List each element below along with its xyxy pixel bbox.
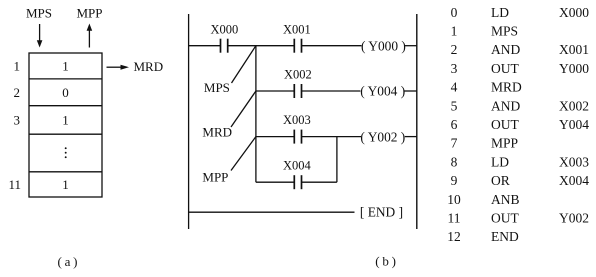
rung 3 wire: branch rail to contact X003 [256,136,294,138]
rung 3 wire: X003 past parallel join to coil [302,136,362,138]
svg-text:Y004: Y004 [559,117,589,132]
svg-text:X001: X001 [283,22,311,36]
svg-text:11: 11 [8,177,21,192]
contact X004 [293,175,295,189]
svg-text:ANB: ANB [491,192,520,207]
svg-text:1: 1 [14,59,21,74]
svg-text:2: 2 [14,85,21,100]
left power rail [188,14,190,229]
svg-text:MPS: MPS [26,6,52,21]
svg-text:OUT: OUT [491,117,519,132]
END rung wire [189,211,355,213]
svg-text:MPP: MPP [491,136,518,151]
svg-text:3: 3 [14,113,21,128]
svg-text:X001: X001 [559,42,589,57]
svg-text:MRD: MRD [491,80,522,95]
svg-text:MRD: MRD [202,125,232,140]
contact X000 [220,39,222,53]
rung 1 wire: X000 to contact X001 through node [228,45,295,47]
svg-text:1: 1 [451,24,458,39]
svg-text:X000: X000 [211,22,239,36]
contact X003 [293,130,295,144]
svg-text:X000: X000 [559,5,589,20]
svg-text:( Y004 ): ( Y004 ) [360,84,405,99]
svg-text:X004: X004 [559,173,589,188]
svg-text:Y002: Y002 [559,211,589,226]
svg-text:Y000: Y000 [559,61,589,76]
svg-text:MRD: MRD [134,59,164,74]
svg-text:MPP: MPP [202,169,228,184]
wire MPP pop arrow [88,30,90,48]
svg-text:( Y000 ): ( Y000 ) [361,38,406,53]
contact X002 [293,84,295,98]
svg-text:7: 7 [451,136,458,151]
svg-text:1: 1 [62,113,69,128]
branch rail wire (MPS stem) [255,46,257,183]
rung 1 wire: left rail to contact X000 [189,45,221,47]
svg-text:0: 0 [451,5,458,20]
rung 2 wire: branch rail to contact X002 [256,90,294,92]
svg-text:[ END ]: [ END ] [360,205,403,220]
svg-text:X004: X004 [283,159,312,173]
stack ellipsis dots [65,147,67,149]
svg-text:2: 2 [451,42,458,57]
label MPS with leader line [232,46,256,83]
wire MPS push arrow [39,24,41,42]
svg-text:LD: LD [491,5,509,20]
svg-text:(a): (a) [57,254,80,269]
svg-text:1: 1 [62,177,69,192]
stack cell divider dots/11 [29,171,102,173]
label MRD with leader line [231,91,256,127]
parallel branch connector wire [336,137,338,183]
svg-text:3: 3 [451,61,458,76]
rung 4 wire: X004 to parallel connector [302,181,337,183]
contact X001 [293,39,295,53]
svg-text:LD: LD [491,154,509,169]
label MPP with leader line [231,137,256,171]
svg-text:MPP: MPP [77,6,103,21]
svg-text:X002: X002 [559,98,589,113]
svg-text:4: 4 [451,80,458,95]
right power rail [416,14,418,229]
rung 2 wire: coil to right rail [404,90,417,92]
svg-text:AND: AND [491,42,520,57]
svg-text:OR: OR [491,173,510,188]
svg-text:12: 12 [447,229,461,244]
svg-text:10: 10 [447,192,461,207]
rung 2 wire: X002 to coil [302,90,361,92]
svg-text:X003: X003 [283,113,311,127]
stack cell divider 1/2 [29,78,102,80]
wire MRD read arrow [107,66,123,68]
svg-text:AND: AND [491,98,520,113]
svg-text:0: 0 [62,85,69,100]
svg-text:X002: X002 [284,68,312,82]
rung 3 wire: coil to right rail [405,136,417,138]
svg-text:MPS: MPS [491,24,518,39]
svg-text:8: 8 [451,154,458,169]
svg-text:( Y002 ): ( Y002 ) [360,129,405,144]
rung 4 wire: branch rail to contact X004 [256,181,294,183]
svg-text:OUT: OUT [491,61,519,76]
svg-text:X003: X003 [559,154,589,169]
stack cell divider 2/3 [29,105,102,107]
stack box [29,53,102,197]
svg-text:MPS: MPS [204,80,230,95]
svg-text:5: 5 [451,98,458,113]
rung 1 wire: coil to right rail [405,45,417,47]
instruction list [447,5,589,244]
svg-text:1: 1 [62,59,69,74]
svg-text:6: 6 [451,117,458,132]
svg-text:11: 11 [448,211,461,226]
rung 1 wire: X001 to coil [302,45,362,47]
stack cell divider 3/dots [29,133,102,135]
svg-text:9: 9 [451,173,458,188]
svg-text:OUT: OUT [491,211,519,226]
svg-text:END: END [491,229,519,244]
svg-text:(b): (b) [375,254,399,269]
